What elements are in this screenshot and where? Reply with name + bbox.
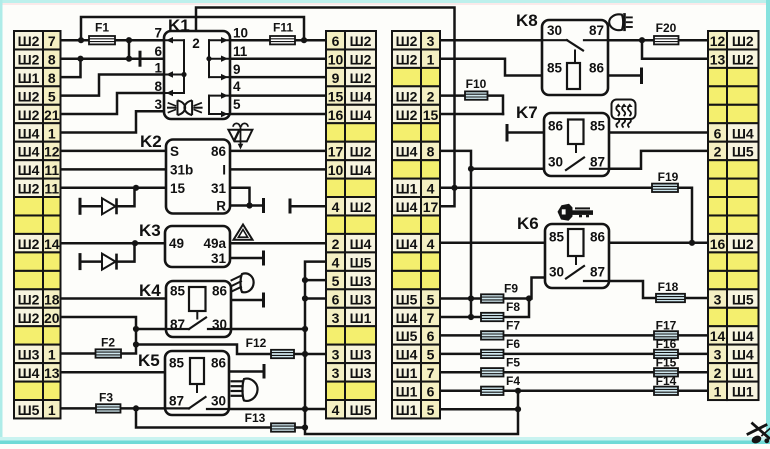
relay K1 headlamp monitor bbox=[154, 16, 248, 119]
svg-text:86: 86 bbox=[211, 356, 227, 371]
wire top rail from F1 junction to F11 junction bbox=[81, 17, 304, 40]
svg-text:Ш4: Ш4 bbox=[396, 199, 418, 215]
svg-text:16: 16 bbox=[710, 236, 726, 252]
svg-text:12: 12 bbox=[710, 33, 726, 49]
svg-text:Ш5: Ш5 bbox=[732, 144, 754, 160]
svg-text:Ш2: Ш2 bbox=[18, 52, 40, 68]
wire K3 pin 49a to cell 2/Ш4 bbox=[230, 242, 326, 245]
svg-text:Ш4: Ш4 bbox=[350, 236, 372, 252]
svg-text:85: 85 bbox=[170, 284, 186, 299]
svg-text:Ш4: Ш4 bbox=[350, 162, 372, 178]
wire Ш5/1 through fuse F3 to K5 pin 87 bbox=[61, 405, 166, 411]
wire K8 pin 86 to terminal bbox=[608, 68, 642, 85]
wire Ш2/18 to K4 pin 85 bbox=[61, 297, 167, 300]
svg-text:Ш2: Ш2 bbox=[18, 291, 40, 307]
wire Ш5/6 through fuses F7 F17 to cell 14/Ш4 bbox=[440, 334, 708, 337]
svg-text:87: 87 bbox=[589, 23, 604, 38]
wire K3 pin 31 to terminal bbox=[230, 251, 264, 266]
svg-text:10: 10 bbox=[328, 52, 344, 68]
fuse F5 bbox=[481, 355, 520, 376]
wire K1 pin 9 to cell 9/Ш2 bbox=[230, 76, 326, 79]
svg-text:F13: F13 bbox=[245, 411, 266, 425]
svg-text:Ш4: Ш4 bbox=[350, 88, 372, 104]
svg-text:Ш4: Ш4 bbox=[350, 107, 372, 123]
connector column right bbox=[708, 31, 759, 400]
svg-text:15: 15 bbox=[423, 107, 439, 123]
svg-text:15: 15 bbox=[170, 181, 186, 196]
svg-text:F7: F7 bbox=[506, 319, 520, 333]
svg-text:1: 1 bbox=[154, 61, 162, 76]
svg-text:8: 8 bbox=[48, 52, 56, 68]
svg-text:F11: F11 bbox=[273, 21, 293, 35]
svg-text:F6: F6 bbox=[506, 337, 520, 351]
svg-text:Ш5: Ш5 bbox=[350, 254, 372, 270]
wire F13 branch along bottom bbox=[136, 408, 308, 430]
fuse F4 bbox=[481, 374, 520, 395]
fuse F1 bbox=[89, 21, 115, 45]
svg-text:8: 8 bbox=[48, 70, 56, 86]
wire Ш2/7 row to K1 pin 7 through fuse F1 bbox=[61, 37, 165, 43]
svg-text:1: 1 bbox=[48, 347, 56, 363]
wire K7 pin 85 to cell 6/Ш4 bbox=[609, 131, 708, 134]
svg-text:Ш1: Ш1 bbox=[396, 402, 418, 418]
wire Ш2/20 to K4 pin 87 and F12 feed bbox=[61, 317, 167, 348]
wire Ш4/4 to K6 pin 85 bbox=[440, 242, 545, 245]
fuse F20 bbox=[654, 21, 679, 44]
svg-text:11: 11 bbox=[233, 44, 248, 59]
svg-text:2: 2 bbox=[427, 88, 435, 104]
svg-text:49a: 49a bbox=[203, 236, 226, 251]
svg-text:1: 1 bbox=[48, 402, 56, 418]
svg-text:Ш4: Ш4 bbox=[18, 125, 40, 141]
svg-text:F18: F18 bbox=[658, 280, 679, 294]
wire Ш2/2 through fuse F10 to Ш2/15 bbox=[440, 96, 503, 114]
svg-text:Ш2: Ш2 bbox=[350, 70, 372, 86]
svg-text:3: 3 bbox=[714, 291, 722, 307]
svg-text:Ш4: Ш4 bbox=[396, 144, 418, 160]
svg-text:31: 31 bbox=[211, 251, 227, 266]
fuse F13 bbox=[245, 411, 295, 432]
fuse F6 bbox=[481, 337, 520, 358]
svg-text:Ш1: Ш1 bbox=[396, 384, 418, 400]
svg-text:Ш5: Ш5 bbox=[396, 328, 418, 344]
relay K8 rear fog lamp bbox=[516, 11, 608, 95]
svg-text:5: 5 bbox=[48, 88, 56, 104]
wire K2 pins 31 and R to terminal bbox=[230, 188, 264, 213]
svg-text:5: 5 bbox=[233, 97, 241, 112]
wire Ш3/1 through fuse F2 bbox=[61, 345, 137, 354]
svg-text:3: 3 bbox=[332, 365, 340, 381]
fuse F7 bbox=[481, 319, 520, 340]
wire Ш4/5 through fuses F6 F16 to cell 3/Ш4 bbox=[440, 353, 708, 356]
svg-text:87: 87 bbox=[169, 394, 184, 409]
wire terminal to K7 pin 86 bbox=[507, 124, 544, 142]
svg-text:3: 3 bbox=[332, 347, 340, 363]
svg-text:F3: F3 bbox=[99, 391, 113, 405]
svg-text:86: 86 bbox=[589, 61, 605, 76]
svg-text:F2: F2 bbox=[101, 336, 115, 350]
svg-text:F14: F14 bbox=[656, 374, 677, 388]
wire diode branch to K3 pin 49 bbox=[80, 243, 135, 270]
svg-text:10: 10 bbox=[328, 162, 344, 178]
fuse F16 bbox=[654, 337, 678, 358]
svg-text:3: 3 bbox=[154, 97, 162, 112]
svg-text:F8: F8 bbox=[506, 300, 520, 314]
svg-text:2: 2 bbox=[714, 365, 722, 381]
svg-text:8: 8 bbox=[427, 144, 435, 160]
svg-text:30: 30 bbox=[211, 394, 226, 409]
svg-text:K1: K1 bbox=[168, 16, 190, 35]
wire K2 pin I to cell 10/Ш4 bbox=[230, 168, 326, 171]
svg-text:Ш2: Ш2 bbox=[18, 33, 40, 49]
svg-text:Ш2: Ш2 bbox=[18, 310, 40, 326]
wire K5 pin 30 to cell 4/Ш5 bbox=[229, 406, 326, 412]
fuse F2 bbox=[96, 336, 122, 358]
svg-text:F17: F17 bbox=[656, 319, 677, 333]
wire Ш4/8 down side rail to fuses F9 F8 bbox=[440, 151, 474, 320]
svg-text:4: 4 bbox=[332, 254, 340, 270]
wire Ш4/13 to K5 pin 85 bbox=[61, 371, 166, 374]
svg-text:Ш2: Ш2 bbox=[350, 199, 372, 215]
svg-text:F9: F9 bbox=[504, 282, 518, 296]
fuse F15 bbox=[654, 355, 678, 376]
fuse F19 bbox=[652, 170, 679, 192]
svg-text:30: 30 bbox=[548, 155, 563, 170]
svg-text:Ш3: Ш3 bbox=[350, 291, 372, 307]
svg-text:Ш2: Ш2 bbox=[396, 33, 418, 49]
wire centre distribution rail with bottom loop to Ш1/5 bbox=[302, 262, 521, 434]
svg-text:85: 85 bbox=[547, 61, 563, 76]
svg-text:Ш1: Ш1 bbox=[396, 365, 418, 381]
svg-text:F19: F19 bbox=[658, 170, 679, 184]
svg-text:31: 31 bbox=[211, 181, 227, 196]
wire fuse F12 line to cell 3/Ш3 bbox=[136, 345, 326, 358]
svg-text:F10: F10 bbox=[466, 77, 487, 91]
svg-text:5: 5 bbox=[427, 347, 435, 363]
connector column middle-left bbox=[326, 31, 376, 418]
watermark insect logo bbox=[748, 424, 770, 445]
wire Ш1/7 through fuses F5 F15 to cell 2/Ш1 bbox=[440, 371, 708, 374]
svg-text:17: 17 bbox=[423, 199, 439, 215]
svg-text:Ш2: Ш2 bbox=[732, 33, 754, 49]
svg-text:7: 7 bbox=[427, 310, 435, 326]
fuse F10 bbox=[465, 77, 488, 100]
wire Ш1/6 through fuses F4 F14 to cell 1/Ш1 bbox=[440, 388, 708, 394]
connector column middle-right bbox=[392, 31, 440, 418]
svg-text:7: 7 bbox=[427, 365, 435, 381]
wire Ш5/5 through fuse F9 to K6 pin 30 bbox=[440, 278, 566, 302]
svg-text:5: 5 bbox=[332, 273, 340, 289]
svg-text:F20: F20 bbox=[656, 21, 677, 35]
high beam icon beside K4 bbox=[232, 273, 254, 292]
svg-text:86: 86 bbox=[590, 230, 606, 245]
svg-text:17: 17 bbox=[328, 144, 344, 160]
svg-text:Ш5: Ш5 bbox=[18, 402, 40, 418]
svg-text:12: 12 bbox=[44, 144, 60, 160]
wire K1 pin 10 through fuse F11 to cell 6/Ш2 bbox=[230, 37, 326, 43]
wire K1 pin 11 to cell 10/Ш2 bbox=[230, 57, 326, 60]
svg-text:Ш1: Ш1 bbox=[732, 365, 754, 381]
relay K3 turn signal / hazard bbox=[139, 221, 230, 267]
heated rear window icon beside K7 bbox=[612, 100, 636, 128]
wire K6 pin 87 through fuse F18 to cell 3/Ш5 bbox=[609, 281, 708, 298]
svg-text:85: 85 bbox=[549, 230, 565, 245]
svg-text:Ш4: Ш4 bbox=[732, 125, 754, 141]
fuse F3 bbox=[96, 391, 121, 413]
svg-text:Ш4: Ш4 bbox=[732, 328, 754, 344]
wire Ш2/11 to K2 pin 15 bbox=[61, 185, 167, 191]
svg-text:F12: F12 bbox=[246, 336, 267, 350]
svg-text:Ш4: Ш4 bbox=[396, 310, 418, 326]
svg-text:20: 20 bbox=[44, 310, 60, 326]
wire K8 pin 87 through fuse F20 to cells 12/Ш2 and 13/Ш2 bbox=[608, 37, 708, 59]
svg-text:Ш2: Ш2 bbox=[18, 88, 40, 104]
wire side rail to K7 pin 30 bbox=[471, 168, 544, 171]
wire Ш1/4 through fuse F19 to K6 pin 86 junction bbox=[440, 188, 692, 243]
svg-text:Ш4: Ш4 bbox=[396, 347, 418, 363]
relay K6 starter / ignition bbox=[517, 214, 609, 288]
svg-text:6: 6 bbox=[427, 328, 435, 344]
svg-text:I: I bbox=[222, 162, 226, 177]
wiper icon above K2 bbox=[228, 123, 252, 149]
wire Ш4/11 to K2 pin 31b bbox=[61, 168, 167, 171]
svg-text:30: 30 bbox=[549, 265, 564, 280]
svg-text:K5: K5 bbox=[138, 351, 160, 370]
diode VD2 bbox=[102, 254, 117, 270]
svg-text:Ш3: Ш3 bbox=[18, 347, 40, 363]
svg-text:Ш4: Ш4 bbox=[18, 144, 40, 160]
svg-text:K2: K2 bbox=[140, 132, 162, 151]
svg-text:21: 21 bbox=[44, 107, 60, 123]
svg-text:F5: F5 bbox=[506, 355, 520, 369]
svg-text:85: 85 bbox=[590, 119, 606, 134]
svg-text:5: 5 bbox=[427, 291, 435, 307]
svg-text:Ш5: Ш5 bbox=[396, 291, 418, 307]
svg-text:9: 9 bbox=[332, 70, 340, 86]
connector column left (Ш1-Ш5 plug pins) bbox=[14, 31, 61, 418]
svg-text:Ш1: Ш1 bbox=[350, 310, 372, 326]
svg-text:Ш2: Ш2 bbox=[396, 52, 418, 68]
svg-text:Ш4: Ш4 bbox=[396, 236, 418, 252]
svg-text:49: 49 bbox=[169, 236, 184, 251]
svg-text:F15: F15 bbox=[656, 355, 677, 369]
svg-text:3: 3 bbox=[714, 347, 722, 363]
wire K7 pin 87 to cell 2/Ш5 bbox=[609, 151, 708, 169]
svg-text:Ш4: Ш4 bbox=[18, 365, 40, 381]
svg-text:16: 16 bbox=[328, 107, 344, 123]
fuse F18 bbox=[656, 280, 685, 302]
svg-text:10: 10 bbox=[233, 26, 248, 41]
wire Ш2/3 to K8 pin 30 bbox=[440, 39, 542, 42]
svg-text:2: 2 bbox=[714, 144, 722, 160]
svg-text:Ш2: Ш2 bbox=[732, 236, 754, 252]
lamp icon inside K1 bbox=[168, 100, 202, 115]
svg-text:K4: K4 bbox=[139, 281, 161, 300]
svg-text:Ш2: Ш2 bbox=[350, 33, 372, 49]
svg-text:1: 1 bbox=[427, 52, 435, 68]
svg-text:K6: K6 bbox=[517, 214, 539, 233]
hazard triangle icon above K3 bbox=[234, 225, 253, 240]
fuse F8 bbox=[481, 300, 520, 321]
svg-text:15: 15 bbox=[328, 88, 344, 104]
svg-text:86: 86 bbox=[211, 144, 227, 159]
wire diode branch to K2 pin 15 bbox=[80, 188, 135, 215]
wire terminal to cell 4/Ш2 bbox=[290, 199, 326, 214]
svg-text:Ш2: Ш2 bbox=[350, 52, 372, 68]
wire Ш4/12 to K2 pin S bbox=[61, 150, 167, 153]
svg-text:8: 8 bbox=[154, 79, 162, 94]
svg-text:Ш2: Ш2 bbox=[396, 107, 418, 123]
fuse F12 bbox=[246, 336, 294, 358]
fuse F11 bbox=[270, 21, 295, 45]
svg-text:R: R bbox=[216, 199, 226, 214]
svg-text:30: 30 bbox=[547, 23, 562, 38]
svg-text:14: 14 bbox=[44, 236, 60, 252]
svg-text:K7: K7 bbox=[516, 103, 538, 122]
svg-text:5: 5 bbox=[427, 402, 435, 418]
diode VD1 bbox=[102, 198, 117, 214]
svg-text:85: 85 bbox=[169, 356, 185, 371]
svg-text:K3: K3 bbox=[139, 221, 161, 240]
svg-text:7: 7 bbox=[154, 26, 162, 41]
svg-text:Ш1: Ш1 bbox=[18, 70, 40, 86]
svg-text:4: 4 bbox=[233, 79, 241, 94]
svg-text:14: 14 bbox=[710, 328, 726, 344]
wire K2 pin 86 to cell 17/Ш2 bbox=[230, 150, 326, 153]
svg-text:4: 4 bbox=[332, 402, 340, 418]
svg-text:11: 11 bbox=[44, 162, 59, 178]
svg-text:Ш4: Ш4 bbox=[18, 162, 40, 178]
low beam icon beside K5 bbox=[232, 379, 258, 401]
svg-text:9: 9 bbox=[233, 62, 241, 77]
svg-text:6: 6 bbox=[154, 44, 162, 59]
svg-text:6: 6 bbox=[427, 384, 435, 400]
relay K5 low beam bbox=[138, 351, 229, 415]
svg-text:2: 2 bbox=[332, 236, 340, 252]
relay K2 windscreen wiper bbox=[140, 132, 230, 214]
svg-text:F4: F4 bbox=[506, 374, 520, 388]
svg-text:1: 1 bbox=[48, 125, 56, 141]
svg-text:86: 86 bbox=[548, 119, 564, 134]
svg-text:Ш1: Ш1 bbox=[396, 181, 418, 197]
svg-text:3: 3 bbox=[427, 33, 435, 49]
svg-text:F16: F16 bbox=[656, 337, 677, 351]
fuse F9 bbox=[481, 282, 518, 303]
wire Ш2/14 to K3 pin 49 bbox=[61, 240, 166, 246]
svg-text:6: 6 bbox=[332, 291, 340, 307]
fuse F14 bbox=[654, 374, 678, 395]
wire K4 pin 30 to centre rail bbox=[231, 326, 308, 332]
rear fog lamp icon beside K8 bbox=[609, 14, 632, 30]
wire Ш2/8 and Ш1/8 to K1 pin 6 terminal bbox=[61, 40, 165, 77]
wire Ш2/1 to K8 pin 85 bbox=[440, 59, 542, 76]
svg-text:Ш5: Ш5 bbox=[732, 291, 754, 307]
svg-text:86: 86 bbox=[212, 284, 228, 299]
wire Ш2/21 to K1 pin 8 bbox=[61, 93, 165, 114]
svg-text:Ш4: Ш4 bbox=[732, 347, 754, 363]
svg-text:87: 87 bbox=[590, 265, 605, 280]
wire +12V rail from K1 pin 2 down middle to Ш4/17 bbox=[196, 8, 458, 207]
fuse F17 bbox=[654, 319, 678, 340]
svg-text:11: 11 bbox=[44, 181, 59, 197]
relay K7 heated rear window bbox=[516, 103, 609, 176]
svg-text:4: 4 bbox=[332, 199, 340, 215]
svg-text:S: S bbox=[170, 144, 179, 159]
svg-text:4: 4 bbox=[427, 181, 435, 197]
svg-text:18: 18 bbox=[44, 291, 60, 307]
svg-text:Ш1: Ш1 bbox=[732, 384, 754, 400]
svg-text:Ш2: Ш2 bbox=[396, 88, 418, 104]
svg-text:6: 6 bbox=[332, 33, 340, 49]
svg-text:Ш5: Ш5 bbox=[350, 402, 372, 418]
wire K6 pin 86 to cell 16/Ш2 bbox=[609, 240, 708, 246]
ignition key icon above K6 bbox=[558, 204, 594, 221]
wire K1 pin 5 to cell 16/Ш4 bbox=[230, 113, 326, 116]
svg-text:Ш3: Ш3 bbox=[350, 365, 372, 381]
svg-text:Ш3: Ш3 bbox=[350, 347, 372, 363]
wire Ш4/7 through fuse F8 bbox=[440, 299, 529, 318]
relay K4 high beam bbox=[139, 281, 231, 337]
svg-text:Ш2: Ш2 bbox=[350, 144, 372, 160]
svg-text:Ш2: Ш2 bbox=[18, 107, 40, 123]
svg-text:31b: 31b bbox=[170, 162, 193, 177]
svg-text:3: 3 bbox=[332, 310, 340, 326]
wire K5 pin 86 to terminal bbox=[229, 364, 264, 379]
svg-text:Ш2: Ш2 bbox=[732, 52, 754, 68]
svg-text:13: 13 bbox=[710, 52, 726, 68]
svg-text:Ш2: Ш2 bbox=[18, 181, 40, 197]
svg-text:Ш3: Ш3 bbox=[350, 273, 372, 289]
svg-text:1: 1 bbox=[714, 384, 722, 400]
wire Ш2/5 to K1 pin 1 bbox=[61, 75, 165, 96]
svg-text:7: 7 bbox=[48, 33, 56, 49]
svg-text:13: 13 bbox=[44, 365, 60, 381]
wire K1 pin 4 to cell 15/Ш4 bbox=[230, 94, 326, 97]
svg-text:2: 2 bbox=[192, 36, 200, 51]
svg-text:Ш2: Ш2 bbox=[18, 236, 40, 252]
svg-text:K8: K8 bbox=[516, 11, 538, 30]
svg-text:4: 4 bbox=[427, 236, 435, 252]
wire K4 pin 86 to terminal bbox=[231, 293, 264, 308]
svg-text:6: 6 bbox=[714, 125, 722, 141]
svg-text:F1: F1 bbox=[95, 21, 109, 35]
svg-text:87: 87 bbox=[590, 155, 605, 170]
wire Ш4/1 to K1 pin 3 bbox=[61, 111, 165, 132]
